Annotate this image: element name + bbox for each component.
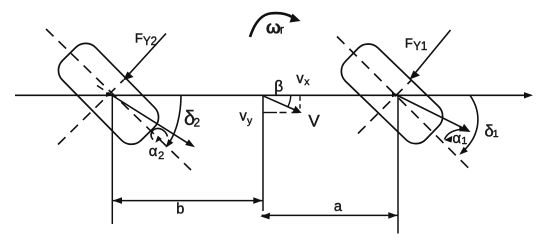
svg-text:a: a [334,199,343,215]
svg-text:β: β [274,78,283,95]
svg-text:F: F [135,30,143,45]
svg-text:α: α [452,130,461,147]
svg-text:F: F [405,35,413,50]
svg-text:r: r [280,23,284,37]
svg-text:y: y [247,115,253,127]
svg-text:b: b [176,202,184,218]
svg-text:V: V [308,112,320,131]
svg-text:ω: ω [266,18,281,38]
svg-text:α: α [149,143,158,160]
svg-text:2: 2 [194,118,200,130]
svg-text:Y2: Y2 [143,36,157,48]
svg-text:1: 1 [461,135,467,147]
svg-text:v: v [296,71,304,87]
svg-text:Y1: Y1 [413,41,427,53]
svg-text:x: x [304,76,310,88]
svg-text:2: 2 [158,150,164,162]
svg-text:1: 1 [493,128,499,140]
